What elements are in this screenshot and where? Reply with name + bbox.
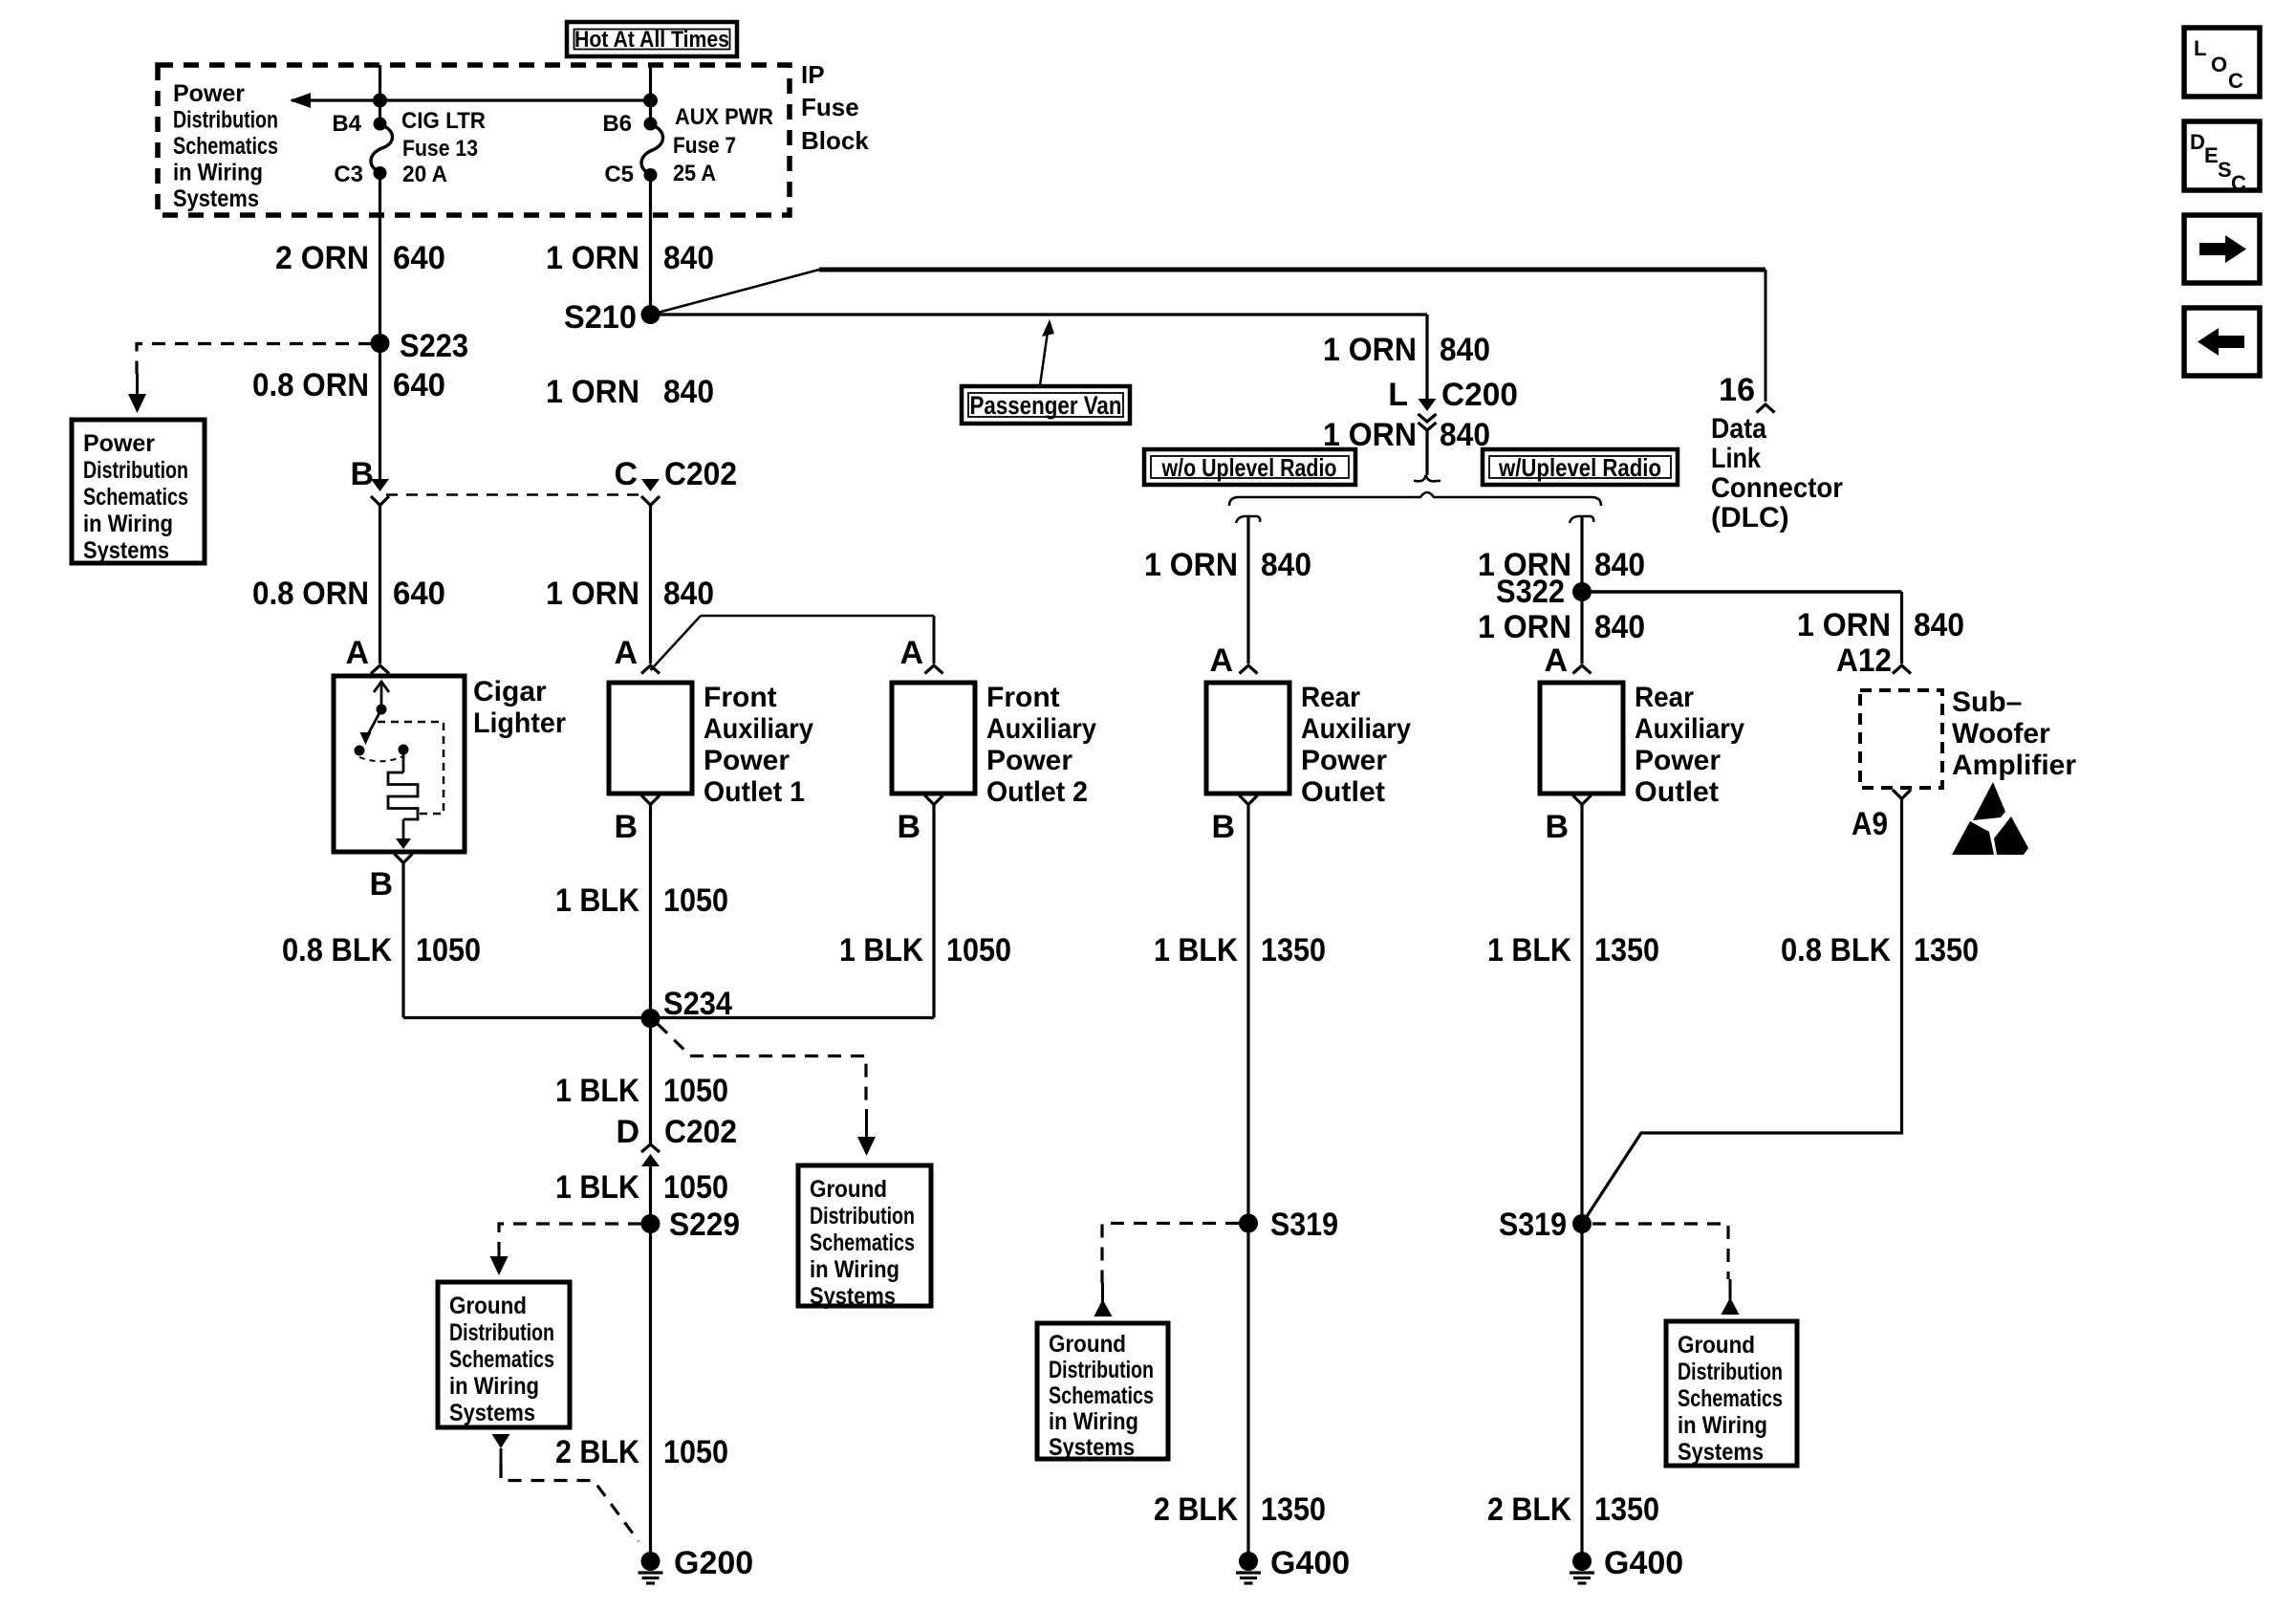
svg-text:2 BLK: 2 BLK (555, 1434, 639, 1470)
node S319 splice (right) (1572, 1214, 1592, 1233)
junction on CIG LTR feed (373, 94, 387, 108)
dashed reference from S319 right (1592, 1224, 1728, 1279)
svg-text:640: 640 (393, 576, 445, 612)
svg-text:S: S (2218, 158, 2232, 182)
ESD sensitivity symbol (1952, 782, 2028, 855)
svg-text:840: 840 (1440, 332, 1490, 368)
option label box: w/o Uplevel Radio (1144, 449, 1355, 485)
ground G400 (left) (1236, 1552, 1261, 1583)
svg-text:840: 840 (1261, 547, 1311, 583)
svg-text:A9: A9 (1852, 806, 1888, 842)
svg-text:0.8 BLK: 0.8 BLK (282, 932, 392, 968)
node S210 splice (641, 305, 661, 324)
svg-text:1050: 1050 (663, 882, 728, 919)
reference box: Ground Distribution Schematics (S234) (798, 1165, 931, 1306)
dashed reference wire from S223 (137, 344, 372, 375)
wire: bus to Power Distribution arrow (292, 98, 651, 101)
svg-text:1350: 1350 (1261, 1491, 1326, 1528)
wire: CIG LTR fuse output through box edge (379, 173, 381, 483)
component: Front Auxiliary Power Outlet 2 (892, 683, 975, 794)
arrowhead at Ground Distribution box (S319 left) (1094, 1299, 1113, 1316)
svg-text:0.8 BLK: 0.8 BLK (1781, 932, 1891, 968)
junction on AUX PWR feed (643, 94, 658, 108)
svg-text:2 BLK: 2 BLK (1154, 1491, 1238, 1528)
svg-text:1 ORN: 1 ORN (546, 374, 639, 410)
svg-text:G400: G400 (1270, 1545, 1350, 1581)
cigar lighter internal: heating element resistor (388, 754, 418, 849)
svg-text:0.8 ORN: 0.8 ORN (252, 576, 369, 612)
svg-text:1 BLK: 1 BLK (555, 882, 639, 919)
cigar lighter internal: moving contact (360, 709, 382, 745)
wire: C202 B to cigar lighter A (379, 506, 381, 664)
reference box: Ground Distribution Schematics (S319 left) (1037, 1323, 1168, 1459)
wire: C202 D to S229 to G200 (649, 1164, 652, 1553)
svg-text:Link: Link (1711, 443, 1761, 474)
svg-text:2 ORN: 2 ORN (275, 240, 369, 276)
Passenger Van callout arrow (1040, 319, 1054, 385)
connector chevron A9 below sub-woofer (1893, 790, 1911, 799)
reference box: Power Distribution Schematics in Wiring Systems (72, 420, 205, 563)
svg-text:Outlet 2: Outlet 2 (986, 776, 1088, 808)
wire: C202 C to outlet A (649, 506, 652, 664)
node S319 splice (left) (1239, 1214, 1258, 1233)
svg-text:1350: 1350 (1914, 932, 1979, 968)
svg-text:Schematics: Schematics (83, 484, 188, 511)
connector chevron B at cigar lighter (395, 854, 413, 863)
wire: w/ branch to S322 (1580, 516, 1583, 592)
svg-text:1 ORN: 1 ORN (546, 576, 639, 612)
connector chevron B at rear outlet 1 (1240, 795, 1258, 805)
svg-text:Power: Power (986, 745, 1072, 776)
dashed reference from S229 (499, 1224, 641, 1249)
svg-text:840: 840 (663, 240, 714, 276)
component: Rear Auxiliary Power Outlet (w/o uplevel radio) (1206, 683, 1289, 794)
svg-text:Power: Power (1301, 745, 1387, 776)
svg-text:C: C (2231, 171, 2246, 195)
wire: S210 to C200 drop (horizontal) (651, 313, 1428, 315)
svg-text:Outlet: Outlet (1635, 776, 1719, 808)
svg-text:1350: 1350 (1594, 1491, 1659, 1528)
fuse F7 AUX PWR 25A (641, 118, 663, 183)
node S229 splice (641, 1214, 661, 1233)
svg-text:A: A (345, 635, 369, 671)
svg-text:Fuse: Fuse (801, 93, 859, 121)
svg-text:A: A (899, 635, 923, 671)
wire: DLC feed (thick horizontal) (819, 268, 1765, 272)
svg-text:Distribution: Distribution (173, 107, 278, 134)
node S234 splice (641, 1009, 661, 1028)
svg-text:D: D (2190, 130, 2205, 154)
svg-text:Auxiliary: Auxiliary (1301, 713, 1411, 745)
svg-text:Schematics: Schematics (1049, 1382, 1154, 1409)
svg-text:in Wiring: in Wiring (810, 1256, 899, 1283)
svg-text:S319: S319 (1270, 1207, 1338, 1243)
svg-text:(DLC): (DLC) (1711, 502, 1789, 533)
ground G200 (639, 1552, 663, 1583)
svg-text:A12: A12 (1836, 642, 1892, 679)
arrowhead to Power Distribution Schematics (290, 93, 311, 108)
reference box: Ground Distribution Schematics (S319 right) (1666, 1321, 1797, 1466)
svg-text:20 A: 20 A (402, 162, 447, 187)
svg-text:Schematics: Schematics (449, 1346, 554, 1373)
svg-text:C202: C202 (664, 456, 737, 492)
svg-text:1050: 1050 (663, 1434, 728, 1470)
svg-text:S229: S229 (669, 1207, 740, 1243)
dashed connector link C202 (386, 493, 642, 496)
arrowhead into Ground Distribution box (S234) (857, 1137, 876, 1156)
wire: cigar lighter B to S234 run (401, 863, 404, 1018)
svg-text:Power: Power (1635, 745, 1721, 776)
svg-text:Data: Data (1711, 413, 1766, 445)
svg-text:Ground: Ground (449, 1293, 527, 1319)
svg-text:1350: 1350 (1594, 932, 1659, 968)
dashed reference from S234 to Ground Distribution (658, 1024, 866, 1109)
svg-text:Schematics: Schematics (173, 133, 278, 160)
wire: feed from top edge to CIG LTR fuse (379, 65, 381, 124)
wire: drop to C200 (1425, 315, 1428, 402)
svg-text:Distribution: Distribution (1049, 1357, 1154, 1383)
svg-text:C3: C3 (334, 162, 363, 187)
svg-text:840: 840 (663, 576, 714, 612)
svg-text:Power: Power (173, 80, 245, 107)
svg-text:S322: S322 (1496, 574, 1565, 610)
svg-text:Fuse 13: Fuse 13 (402, 136, 478, 162)
svg-text:w/o Uplevel Radio: w/o Uplevel Radio (1161, 453, 1337, 482)
svg-text:CIG LTR: CIG LTR (401, 108, 486, 134)
svg-text:A: A (1209, 642, 1233, 679)
nav box forward arrow (2184, 215, 2260, 283)
svg-text:1 BLK: 1 BLK (1154, 932, 1238, 968)
wire: w/ branch top curl (1570, 516, 1593, 523)
option label box: w/Uplevel Radio (1483, 449, 1678, 485)
svg-text:1 BLK: 1 BLK (555, 1169, 639, 1206)
svg-text:640: 640 (393, 367, 445, 403)
svg-text:B: B (1545, 809, 1569, 845)
svg-text:C: C (614, 456, 638, 492)
arrowhead at Ground Distribution box (S319 right) (1722, 1297, 1740, 1315)
svg-text:B: B (369, 866, 393, 903)
svg-text:Systems: Systems (449, 1400, 535, 1426)
svg-text:IP: IP (801, 60, 825, 89)
svg-text:16: 16 (1719, 372, 1755, 408)
svg-text:AUX PWR: AUX PWR (675, 104, 773, 130)
svg-text:Systems: Systems (1049, 1434, 1135, 1461)
svg-text:Systems: Systems (810, 1283, 896, 1310)
svg-text:Front: Front (704, 682, 777, 713)
svg-text:C202: C202 (664, 1114, 737, 1150)
svg-text:S234: S234 (663, 986, 732, 1022)
svg-text:Lighter: Lighter (473, 707, 566, 739)
connector C202 pin C (641, 479, 660, 506)
connector C200 pin L (1419, 399, 1437, 430)
svg-text:B: B (897, 809, 921, 845)
wire: w/o branch to rear outlet A (1246, 516, 1249, 664)
svg-text:Auxiliary: Auxiliary (986, 713, 1096, 745)
reference box: Ground Distribution Schematics (S229) (438, 1282, 570, 1427)
svg-text:Fuse 7: Fuse 7 (673, 133, 736, 159)
cigar lighter internal: supply arrow (374, 682, 389, 715)
svg-text:O: O (2211, 53, 2227, 76)
svg-text:Cigar: Cigar (473, 676, 547, 707)
svg-text:Woofer: Woofer (1952, 718, 2050, 750)
svg-text:25 A: 25 A (673, 161, 716, 186)
svg-text:Distribution: Distribution (1678, 1359, 1783, 1385)
wire: DLC drop (1765, 270, 1767, 402)
svg-text:1 ORN: 1 ORN (1144, 547, 1238, 583)
wire: w/o branch top curl (1236, 516, 1260, 523)
svg-text:C200: C200 (1441, 377, 1518, 413)
arrowhead into Power Distribution box (128, 394, 146, 413)
svg-text:1050: 1050 (946, 932, 1011, 968)
svg-text:1 ORN: 1 ORN (1797, 607, 1891, 643)
wire: sub-woofer A9 to S319 (1582, 799, 1902, 1225)
svg-text:1050: 1050 (416, 932, 481, 968)
svg-text:2 BLK: 2 BLK (1487, 1491, 1571, 1528)
option brace (1229, 492, 1601, 506)
nav box DESC (2184, 121, 2260, 190)
connector chevron B at rear outlet 2 (1573, 795, 1592, 805)
svg-text:Outlet: Outlet (1301, 776, 1385, 808)
svg-text:Ground: Ground (1678, 1332, 1755, 1359)
svg-text:B6: B6 (602, 111, 632, 137)
connector chevron A at outlet 1 (641, 665, 660, 674)
connector chevron B at outlet 2 (925, 795, 943, 805)
svg-text:Connector: Connector (1711, 472, 1843, 504)
svg-text:L: L (1388, 377, 1408, 413)
ground G400 (right) (1570, 1552, 1594, 1583)
svg-text:in Wiring: in Wiring (173, 160, 263, 186)
svg-text:1050: 1050 (663, 1073, 728, 1109)
wire: rear outlet 2 B to G400 (1580, 805, 1583, 1554)
wire: S322 to sub-woofer drop (1582, 590, 1902, 593)
svg-text:Auxiliary: Auxiliary (704, 713, 813, 745)
svg-text:840: 840 (1594, 609, 1645, 645)
connector chevron A at rear outlet 1 (1240, 665, 1258, 674)
svg-text:in Wiring: in Wiring (1678, 1412, 1767, 1439)
arrowhead into Ground Distribution box (S229) (490, 1256, 509, 1275)
svg-text:Schematics: Schematics (810, 1229, 915, 1256)
svg-text:0.8 ORN: 0.8 ORN (252, 367, 369, 403)
svg-text:1 BLK: 1 BLK (555, 1073, 639, 1109)
svg-text:1 ORN: 1 ORN (1323, 417, 1417, 453)
component: Sub-Woofer Amplifier (dashed) (1860, 690, 1942, 788)
wire: outlet 1 B to S234 (649, 805, 652, 1144)
svg-text:S319: S319 (1499, 1207, 1567, 1243)
svg-text:Passenger Van: Passenger Van (970, 391, 1122, 420)
node S223 splice (371, 334, 390, 353)
svg-text:Power: Power (83, 430, 155, 457)
wire: outlet 2 B down (932, 805, 935, 1018)
svg-text:C: C (2228, 69, 2243, 93)
connector chevron A at outlet 2 (925, 665, 943, 674)
svg-text:840: 840 (1440, 417, 1490, 453)
wire: C200 to option brace (1425, 430, 1428, 475)
connector chevron A12 at sub-woofer amplifier (1893, 665, 1911, 674)
svg-text:Front: Front (986, 682, 1060, 713)
nav box LOC (2184, 28, 2260, 97)
wire: rear outlet 1 B to G400 (1246, 805, 1249, 1554)
svg-text:Schematics: Schematics (1678, 1385, 1783, 1412)
svg-text:in Wiring: in Wiring (1049, 1408, 1138, 1435)
component: Front Auxiliary Power Outlet 1 (609, 683, 692, 794)
svg-text:S210: S210 (564, 299, 637, 336)
svg-text:E: E (2204, 143, 2219, 167)
wire: S210 diagonal riser to DLC feed (651, 270, 820, 315)
svg-text:Systems: Systems (1678, 1439, 1764, 1466)
svg-text:Outlet 1: Outlet 1 (704, 776, 805, 808)
svg-text:Auxiliary: Auxiliary (1635, 713, 1744, 745)
svg-text:A: A (614, 635, 638, 671)
svg-text:Systems: Systems (83, 537, 169, 564)
cigar lighter internal: dashed housing (378, 722, 444, 814)
connector chevron B at outlet 1 (641, 795, 660, 805)
node S322 splice (1572, 582, 1592, 601)
fuse F13 CIG LTR 20A (371, 118, 393, 181)
callout box: Passenger Van (962, 386, 1130, 424)
svg-text:C5: C5 (604, 162, 634, 187)
svg-text:B4: B4 (332, 111, 361, 137)
svg-text:1 ORN: 1 ORN (546, 240, 639, 276)
svg-text:Amplifier: Amplifier (1952, 750, 2076, 781)
svg-text:1350: 1350 (1261, 932, 1326, 968)
svg-text:A: A (1544, 642, 1568, 679)
svg-text:in Wiring: in Wiring (449, 1373, 539, 1400)
svg-text:in Wiring: in Wiring (83, 511, 173, 537)
wire: AUX PWR fuse output to S210 (649, 175, 652, 315)
svg-text:B: B (350, 456, 374, 492)
svg-text:1 ORN: 1 ORN (1323, 332, 1417, 368)
cigar lighter internal: contact dots and dashed arc (355, 745, 409, 762)
power label box: Hot At All Times (567, 22, 737, 56)
svg-text:Ground: Ground (810, 1176, 887, 1203)
component: Cigar Lighter (334, 676, 465, 852)
wire: feed from top edge to AUX PWR fuse (649, 65, 652, 124)
svg-text:B: B (614, 809, 638, 845)
dashed reference to G200 (501, 1465, 639, 1541)
connector chevron A at cigar lighter (371, 665, 389, 674)
wire: S322 to rear outlet A (1580, 592, 1583, 664)
connector C202 pin D (641, 1144, 660, 1166)
svg-text:S223: S223 (400, 328, 468, 364)
svg-text:1050: 1050 (663, 1169, 728, 1206)
svg-text:Power: Power (704, 745, 790, 776)
svg-text:840: 840 (1594, 547, 1645, 583)
svg-text:840: 840 (1914, 607, 1964, 643)
svg-text:G200: G200 (674, 1545, 753, 1581)
wire: branch diagonal to outlet 2 (651, 616, 702, 670)
svg-text:Sub–: Sub– (1952, 686, 2022, 718)
svg-text:Rear: Rear (1635, 682, 1694, 713)
svg-text:B: B (1211, 809, 1235, 845)
svg-text:840: 840 (663, 374, 714, 410)
svg-text:Block: Block (801, 126, 869, 155)
IP Fuse Block dashed enclosure (158, 65, 790, 215)
svg-text:D: D (616, 1114, 639, 1150)
svg-text:1 BLK: 1 BLK (1487, 932, 1571, 968)
svg-text:Systems: Systems (173, 185, 259, 212)
svg-text:Rear: Rear (1301, 682, 1360, 713)
svg-text:G400: G400 (1604, 1545, 1683, 1581)
svg-text:Hot At All Times: Hot At All Times (574, 27, 729, 53)
connector C202 pin B (371, 479, 389, 506)
nav box back arrow (2184, 308, 2260, 376)
svg-text:640: 640 (393, 240, 445, 276)
svg-text:1 ORN: 1 ORN (1478, 609, 1571, 645)
svg-text:1 BLK: 1 BLK (839, 932, 923, 968)
dashed reference from S319 left (1102, 1224, 1239, 1284)
component: Rear Auxiliary Power Outlet (w/uplevel radio) (1540, 683, 1623, 794)
connector C? pin 16 chevron at DLC (1757, 404, 1775, 413)
svg-text:Ground: Ground (1049, 1331, 1126, 1358)
svg-text:Distribution: Distribution (83, 457, 188, 484)
svg-text:Distribution: Distribution (810, 1203, 915, 1229)
svg-text:Distribution: Distribution (449, 1319, 554, 1346)
svg-text:w/Uplevel Radio: w/Uplevel Radio (1498, 453, 1661, 482)
svg-text:L: L (2194, 36, 2206, 60)
arrowhead out of box toward G200 (492, 1434, 510, 1465)
connector chevron A at rear outlet 2 (1573, 665, 1592, 674)
